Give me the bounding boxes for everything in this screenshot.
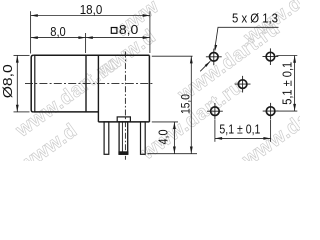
dia8,0 ext top — [14, 54, 30, 56]
center pin inner conductor line — [121, 122, 123, 152]
body front face — [97, 55, 99, 122]
svg-text:4,0: 4,0 — [157, 129, 171, 144]
arrows left view — [16, 14, 193, 154]
arrow 4,0 top — [173, 122, 176, 129]
left pin — [104, 122, 109, 154]
dia8,0 dim line — [16, 55, 18, 112]
right pin — [141, 122, 146, 154]
arrow 8,0 left — [31, 36, 38, 39]
body bottom edge — [98, 121, 149, 123]
opposite arrow with tail — [200, 61, 210, 71]
svg-text:5 x Ø 1,3: 5 x Ø 1,3 — [232, 11, 278, 25]
center pin — [119, 122, 128, 154]
svg-text:15,0: 15,0 — [178, 94, 192, 114]
svg-text:8,0: 8,0 — [50, 25, 66, 39]
top edge — [33, 54, 149, 56]
center pin tip cap — [119, 152, 129, 155]
barrel bottom edge — [33, 111, 98, 113]
hole bottom-left — [207, 103, 223, 120]
hole bottom-right — [263, 103, 279, 120]
arrow 18,0 right — [143, 14, 150, 17]
ext line 18,0 left — [30, 11, 32, 53]
arrow 15,0 top — [190, 56, 193, 63]
svg-text:5,1 ± 0,1: 5,1 ± 0,1 — [281, 62, 295, 105]
right dim 5,1 +-0,1 vertical — [276, 56, 297, 112]
leader 5 x dia1,3 — [215, 27, 279, 49]
svg-text:8,0: 8,0 — [119, 23, 139, 37]
15,0 dim line — [190, 56, 192, 154]
collar line — [85, 55, 87, 112]
ext line 18,0 / sq8 right — [149, 11, 151, 53]
hole center — [235, 76, 251, 93]
hole top-right — [263, 48, 279, 65]
arrow dia8,0 top — [16, 55, 19, 62]
4,0 dim line — [173, 122, 175, 154]
right view: hole pattern — [200, 11, 297, 141]
insulator bushing — [117, 117, 130, 122]
barrel chamfer line — [34, 55, 36, 112]
arrow 18,0 left — [31, 14, 38, 17]
dim texts left view — [1, 2, 192, 145]
svg-text:Ø8,0: Ø8,0 — [1, 64, 15, 98]
15,0 ext top — [152, 55, 193, 57]
dim line 18,0 — [31, 15, 150, 17]
arrow 4,0 bottom — [173, 147, 176, 154]
dia8,0 ext bottom — [14, 111, 30, 113]
bottom dim 5,1 +-0,1 — [215, 120, 271, 142]
arrow sq8,0 right — [143, 36, 150, 39]
vertical centerline — [124, 52, 126, 160]
body right face — [148, 55, 150, 122]
pin tip ext line — [148, 153, 198, 155]
arrow 15,0 bottom — [190, 147, 193, 154]
ext line shared 8,0 / sq8,0 — [85, 33, 87, 53]
arrow 8,0 right — [78, 36, 85, 39]
4,0 ext (body bottom) — [152, 121, 178, 123]
svg-text:5,1 ± 0,1: 5,1 ± 0,1 — [219, 123, 260, 137]
leader arrow — [215, 45, 218, 52]
horizontal centerline — [25, 82, 154, 84]
arrow sq8,0 left — [86, 36, 93, 39]
arrow dia8,0 bottom — [16, 105, 19, 112]
connector body: barrel outline — [31, 55, 33, 112]
label sq8,0 square symbol — [111, 28, 117, 34]
svg-text:18,0: 18,0 — [80, 2, 103, 17]
dim line 8,0 + sq8,0 — [31, 37, 150, 39]
hole top-left — [206, 49, 222, 66]
